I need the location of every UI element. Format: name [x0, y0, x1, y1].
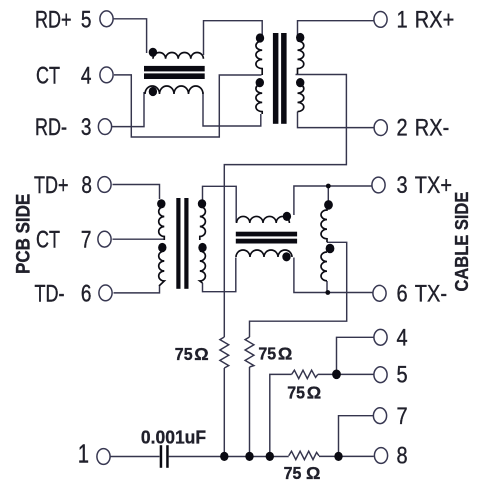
wire R2 bottom to bottom rail [249, 367, 251, 456]
svg-text:TD+: TD+ [34, 173, 68, 199]
polarity dot CMC2 bottom [282, 252, 290, 261]
terminal 1 RX+ cable [374, 12, 387, 28]
terminal 4 PCB [100, 67, 113, 83]
junction bottom rail at terminal 8 [334, 452, 342, 461]
wire terminal 7 branch down to bottom rail [339, 416, 374, 457]
svg-text:7: 7 [397, 402, 408, 429]
terminal 7 cable [373, 408, 386, 424]
wire TX+ junction down to choke coil top [327, 186, 329, 203]
svg-text:1: 1 [78, 439, 89, 468]
svg-text:5: 5 [81, 6, 92, 33]
svg-text:1: 1 [397, 6, 408, 33]
svg-text:6: 6 [397, 279, 408, 306]
svg-text:Ω: Ω [307, 383, 321, 403]
svg-text:75: 75 [287, 383, 305, 403]
svg-text:7: 7 [81, 227, 92, 254]
transformer T2 primary winding [159, 207, 165, 241]
svg-text:2: 2 [397, 114, 408, 141]
svg-text:PCB SIDE: PCB SIDE [12, 194, 33, 274]
polarity dot T1 secondary lower [296, 78, 304, 87]
wire coil center tap down to resistor R2 [250, 242, 347, 337]
choke CMC2 bottom winding [236, 250, 292, 257]
terminal 5 cable [374, 367, 387, 383]
svg-text:5: 5 [397, 361, 408, 388]
svg-text:3: 3 [397, 171, 408, 198]
junction bottom rail at R2 [245, 452, 253, 461]
svg-text:6: 6 [81, 280, 92, 307]
wire R3 left lead down to bottom rail [270, 374, 292, 456]
svg-text:8: 8 [397, 442, 408, 469]
terminal 8 PCB [98, 177, 111, 193]
svg-text:75: 75 [258, 344, 276, 364]
polarity dot CMC2 top [283, 212, 291, 221]
core of T1 [273, 33, 279, 124]
terminal 4 cable [374, 329, 387, 345]
svg-text:RX-: RX- [415, 114, 449, 141]
capacitor C1 plates [160, 445, 163, 468]
transformer T2 secondary winding [200, 207, 206, 241]
terminal 1 PCB [97, 449, 110, 465]
svg-text:75: 75 [175, 345, 193, 365]
junction bottom rail at R1 [220, 452, 228, 461]
svg-text:0.001uF: 0.001uF [141, 427, 206, 447]
wire junction to terminal 5 [337, 373, 374, 375]
junction node terminal 5 row [332, 370, 341, 380]
svg-text:3: 3 [81, 114, 92, 141]
wire CT7 to T2 primary center tap [113, 238, 164, 240]
polarity dot T1 primary upper [256, 33, 264, 42]
svg-text:RX+: RX+ [415, 6, 454, 33]
polarity dot T1 primary lower [256, 78, 264, 87]
terminal 6 PCB [99, 285, 112, 301]
terminal 2 RX- cable [374, 120, 387, 136]
wire RD+5 to CMC1 top winding [114, 19, 147, 53]
polarity dot coil upper [324, 200, 333, 210]
svg-text:4: 4 [81, 62, 92, 89]
svg-text:RD-: RD- [35, 115, 67, 141]
svg-text:75: 75 [284, 463, 302, 480]
terminal 6 TX- cable [373, 285, 386, 301]
core of T2 [176, 198, 180, 289]
polarity dot CMC1 top [149, 48, 157, 57]
wire T1 secondary center tap down to resistor R1 [224, 75, 346, 338]
wire coil bottom to TX- rail [326, 281, 328, 293]
core of CMC1 [144, 66, 205, 72]
polarity dot CMC1 bottom [149, 87, 157, 96]
wire CMC2 bottom right to terminal 6 TX- [294, 258, 373, 293]
wire R3 right lead to junction [318, 373, 337, 375]
svg-text:TX-: TX- [415, 279, 447, 306]
wire TD-6 to T2 primary bottom [114, 286, 160, 293]
wire capacitor to R4 and junctions [169, 456, 289, 458]
svg-text:4: 4 [397, 324, 408, 351]
choke CMC1 top winding [153, 52, 203, 58]
core of CMC2 [236, 232, 297, 237]
polarity dot T2 secondary upper [198, 199, 206, 208]
svg-text:CT: CT [36, 227, 60, 253]
wire T2 secondary bottom to CMC2 bottom winding [203, 258, 236, 292]
terminal 8 cable [374, 448, 387, 464]
wire CMC1 bottom right to T1 primary bottom [203, 92, 261, 126]
polarity dot coil lower [326, 244, 335, 254]
terminal 7 PCB [98, 231, 111, 247]
svg-text:TD-: TD- [35, 281, 65, 307]
polarity dot T2 primary lower [158, 243, 166, 252]
wire CT4 to T1 primary center tap [114, 75, 262, 137]
wire CMC2 top right to terminal 3 TX+ [294, 186, 373, 215]
wire RD-3 to CMC1 bottom winding [112, 92, 144, 127]
svg-text:Ω: Ω [278, 344, 292, 364]
terminal 3 TX+ cable [372, 177, 385, 193]
junction TX- node [325, 290, 330, 295]
resistor R3 zigzag [292, 370, 318, 378]
svg-text:TX+: TX+ [415, 171, 452, 198]
wire T2 secondary top to CMC2 top winding [203, 186, 237, 222]
svg-text:Ω: Ω [194, 344, 208, 364]
wire T1 secondary top to terminal 1 RX+ [298, 21, 374, 41]
svg-text:Ω: Ω [306, 463, 320, 480]
polarity dot T2 secondary lower [198, 243, 206, 252]
terminal 5 PCB [100, 11, 113, 27]
autotransformer coil (cable side) [321, 203, 327, 242]
polarity dot T2 primary upper [157, 199, 165, 208]
svg-text:CT: CT [36, 63, 60, 89]
resistor R2 zigzag [245, 337, 254, 367]
svg-text:CABLE SIDE: CABLE SIDE [451, 192, 472, 292]
wire T1 secondary bottom to terminal 2 RX- [298, 112, 374, 128]
wire TD+8 to T2 primary top [113, 185, 160, 200]
polarity dot T1 secondary upper [296, 33, 304, 42]
choke CMC2 top winding [237, 216, 290, 223]
wire CMC1 top right to T1 primary top [204, 21, 263, 55]
wire terminal 1 to capacitor [111, 456, 160, 458]
wire R4 right to terminal 8 [319, 455, 374, 457]
junction TX+ node [326, 184, 331, 189]
transformer T1 secondary winding [298, 41, 304, 74]
wire R1 bottom to bottom rail [223, 368, 225, 456]
wire terminal 4 branch [337, 337, 374, 374]
resistor R4 zigzag [289, 451, 319, 459]
junction bottom rail at R3 [266, 452, 274, 461]
transformer T1 primary winding [256, 41, 262, 75]
terminal 3 PCB [98, 119, 111, 135]
choke CMC1 bottom winding [145, 86, 203, 94]
svg-text:8: 8 [81, 172, 92, 199]
resistor R1 zigzag [220, 337, 229, 368]
svg-text:RD+: RD+ [35, 7, 71, 33]
